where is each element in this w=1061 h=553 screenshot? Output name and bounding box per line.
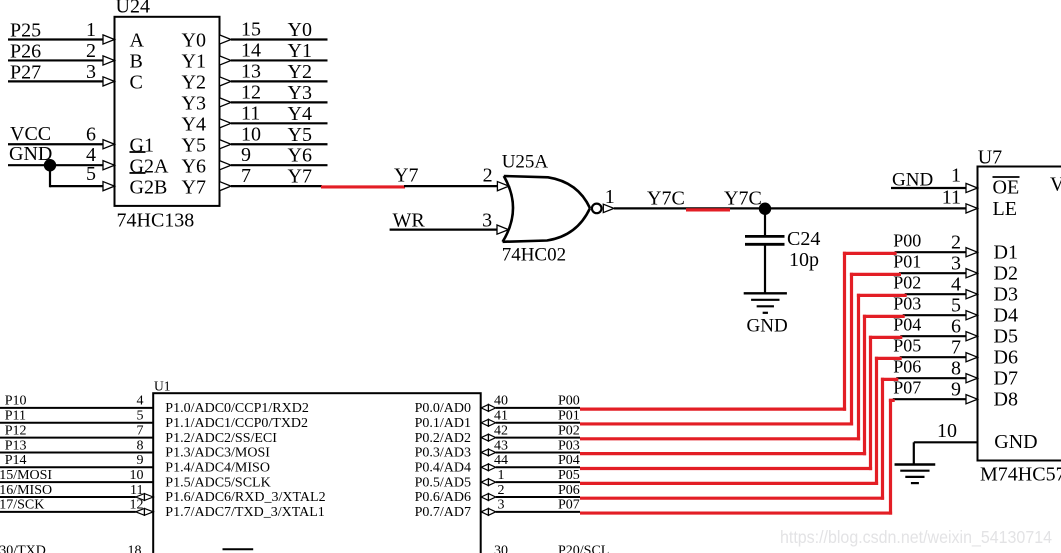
svg-text:Y5: Y5 bbox=[288, 124, 312, 146]
svg-text:G2B: G2B bbox=[130, 176, 168, 198]
svg-text:Y3: Y3 bbox=[288, 82, 312, 104]
svg-text:D1: D1 bbox=[994, 242, 1018, 264]
svg-text:U24: U24 bbox=[116, 0, 150, 18]
svg-text:P13: P13 bbox=[5, 438, 27, 453]
svg-text:74HC138: 74HC138 bbox=[117, 210, 195, 232]
svg-text:U25A: U25A bbox=[502, 151, 549, 172]
svg-text:P03: P03 bbox=[558, 438, 580, 453]
svg-text:P1.4/ADC4/MISO: P1.4/ADC4/MISO bbox=[165, 461, 270, 476]
svg-text:4: 4 bbox=[951, 273, 961, 295]
svg-text:42: 42 bbox=[494, 423, 508, 438]
svg-text:Y6: Y6 bbox=[182, 155, 206, 177]
svg-text:9: 9 bbox=[951, 378, 961, 400]
svg-text:GND: GND bbox=[892, 169, 933, 190]
svg-text:P05: P05 bbox=[558, 468, 580, 483]
svg-text:41: 41 bbox=[494, 409, 508, 424]
svg-text:P10: P10 bbox=[5, 394, 27, 409]
svg-text:11: 11 bbox=[241, 102, 260, 124]
svg-text:P06: P06 bbox=[558, 483, 580, 498]
svg-text:GND: GND bbox=[747, 315, 788, 336]
svg-text:12: 12 bbox=[241, 81, 261, 103]
svg-text:P0.1/AD1: P0.1/AD1 bbox=[415, 416, 471, 431]
svg-text:14: 14 bbox=[241, 39, 261, 61]
svg-text:3: 3 bbox=[482, 210, 492, 232]
svg-text:44: 44 bbox=[494, 453, 508, 468]
svg-text:D4: D4 bbox=[994, 305, 1018, 327]
svg-text:C24: C24 bbox=[787, 228, 820, 250]
svg-text:D5: D5 bbox=[994, 326, 1018, 348]
svg-text:P14: P14 bbox=[5, 453, 27, 468]
svg-text:2: 2 bbox=[86, 40, 96, 62]
svg-text:5: 5 bbox=[137, 409, 144, 424]
svg-text:D7: D7 bbox=[994, 368, 1018, 390]
svg-text:9: 9 bbox=[241, 144, 251, 166]
svg-text:P20/SCL: P20/SCL bbox=[558, 544, 609, 553]
svg-text:P00: P00 bbox=[558, 394, 580, 409]
svg-text:B: B bbox=[130, 51, 143, 73]
svg-text:VCC: VCC bbox=[10, 123, 51, 145]
svg-text:Y0: Y0 bbox=[288, 19, 312, 41]
svg-text:Y2: Y2 bbox=[182, 72, 206, 94]
svg-text:Y7C: Y7C bbox=[724, 187, 762, 209]
svg-text:WR: WR bbox=[393, 210, 426, 232]
svg-text:P0.7/AD7: P0.7/AD7 bbox=[415, 505, 471, 520]
svg-text:U7: U7 bbox=[978, 147, 1002, 169]
svg-text:6: 6 bbox=[951, 315, 961, 337]
svg-text:15: 15 bbox=[241, 19, 261, 41]
svg-text:30: 30 bbox=[494, 544, 508, 553]
svg-text:G1: G1 bbox=[130, 134, 154, 156]
svg-text:P15/MOSI: P15/MOSI bbox=[0, 468, 52, 483]
svg-text:Y6: Y6 bbox=[288, 145, 312, 167]
svg-text:Y7: Y7 bbox=[182, 176, 206, 198]
svg-text:3: 3 bbox=[498, 498, 505, 513]
svg-text:P25: P25 bbox=[10, 20, 41, 42]
svg-text:P00: P00 bbox=[893, 231, 921, 251]
svg-text:6: 6 bbox=[86, 123, 96, 145]
svg-text:8: 8 bbox=[951, 357, 961, 379]
svg-text:M74HC573: M74HC573 bbox=[980, 464, 1061, 486]
svg-text:9: 9 bbox=[137, 453, 144, 468]
svg-text:10: 10 bbox=[130, 468, 144, 483]
svg-text:43: 43 bbox=[494, 438, 508, 453]
svg-text:P1.1/ADC1/CCP0/TXD2: P1.1/ADC1/CCP0/TXD2 bbox=[165, 416, 308, 431]
svg-text:10p: 10p bbox=[789, 249, 819, 271]
svg-text:P1.7/ADC7/TXD_3/XTAL1: P1.7/ADC7/TXD_3/XTAL1 bbox=[165, 505, 324, 520]
svg-text:P1.0/ADC0/CCP1/RXD2: P1.0/ADC0/CCP1/RXD2 bbox=[165, 401, 309, 416]
svg-text:2: 2 bbox=[483, 165, 493, 187]
svg-text:C: C bbox=[130, 72, 143, 94]
svg-text:1: 1 bbox=[951, 165, 961, 187]
svg-text:D2: D2 bbox=[994, 263, 1018, 285]
svg-text:Y4: Y4 bbox=[182, 114, 206, 136]
svg-text:P01: P01 bbox=[893, 252, 921, 272]
svg-text:D3: D3 bbox=[994, 284, 1018, 306]
svg-text:Y1: Y1 bbox=[288, 40, 312, 62]
svg-text:P02: P02 bbox=[558, 423, 580, 438]
svg-text:Y2: Y2 bbox=[288, 61, 312, 83]
svg-text:P0.0/AD0: P0.0/AD0 bbox=[415, 401, 471, 416]
svg-text:3: 3 bbox=[86, 61, 96, 83]
svg-text:8: 8 bbox=[137, 438, 144, 453]
svg-text:11: 11 bbox=[130, 483, 143, 498]
svg-text:Y3: Y3 bbox=[182, 93, 206, 115]
svg-text:Y5: Y5 bbox=[182, 134, 206, 156]
svg-text:P0.4/AD4: P0.4/AD4 bbox=[415, 461, 471, 476]
svg-text:12: 12 bbox=[130, 498, 144, 513]
svg-text:1: 1 bbox=[605, 186, 615, 208]
svg-text:7: 7 bbox=[137, 423, 144, 438]
svg-text:A: A bbox=[130, 30, 145, 52]
svg-text:GND: GND bbox=[994, 431, 1037, 453]
svg-text:10: 10 bbox=[241, 123, 261, 145]
svg-text:P1.3/ADC3/MOSI: P1.3/ADC3/MOSI bbox=[165, 446, 270, 461]
svg-text:2: 2 bbox=[498, 483, 505, 498]
svg-text:18: 18 bbox=[128, 544, 142, 553]
svg-text:7: 7 bbox=[951, 336, 961, 358]
svg-text:G2A: G2A bbox=[130, 155, 169, 177]
svg-text:4: 4 bbox=[137, 394, 144, 409]
svg-text:OE: OE bbox=[993, 177, 1020, 199]
svg-text:74HC02: 74HC02 bbox=[502, 245, 566, 266]
svg-text:1: 1 bbox=[498, 468, 505, 483]
svg-text:P0.2/AD2: P0.2/AD2 bbox=[415, 431, 471, 446]
svg-text:10: 10 bbox=[937, 420, 957, 442]
svg-text:P17/SCK: P17/SCK bbox=[0, 498, 44, 513]
svg-text:Y7: Y7 bbox=[288, 166, 312, 188]
svg-text:D8: D8 bbox=[994, 389, 1018, 411]
svg-text:P1.6/ADC6/RXD_3/XTAL2: P1.6/ADC6/RXD_3/XTAL2 bbox=[165, 490, 325, 505]
svg-text:P1.5/ADC5/SCLK: P1.5/ADC5/SCLK bbox=[165, 475, 270, 490]
svg-text:Y7: Y7 bbox=[394, 165, 418, 187]
svg-text:VCC: VCC bbox=[1050, 174, 1061, 196]
svg-text:Y4: Y4 bbox=[288, 103, 312, 125]
svg-text:P04: P04 bbox=[558, 453, 580, 468]
svg-text:P26: P26 bbox=[10, 40, 41, 62]
svg-text:5: 5 bbox=[86, 163, 96, 185]
svg-text:1: 1 bbox=[86, 19, 96, 41]
svg-text:D6: D6 bbox=[994, 347, 1018, 369]
svg-text:https://blog.csdn.net/weixin_5: https://blog.csdn.net/weixin_54130714 bbox=[780, 527, 1052, 548]
svg-text:7: 7 bbox=[241, 165, 251, 187]
svg-text:11: 11 bbox=[942, 186, 961, 208]
svg-text:P1.2/ADC2/SS/ECI: P1.2/ADC2/SS/ECI bbox=[165, 431, 277, 446]
svg-text:Y0: Y0 bbox=[182, 30, 206, 52]
svg-text:P0.3/AD3: P0.3/AD3 bbox=[415, 446, 471, 461]
svg-text:LE: LE bbox=[993, 198, 1017, 220]
svg-text:P16/MISO: P16/MISO bbox=[0, 483, 52, 498]
svg-text:Y1: Y1 bbox=[182, 51, 206, 73]
svg-text:3: 3 bbox=[951, 252, 961, 274]
svg-text:2: 2 bbox=[951, 231, 961, 253]
svg-text:P27: P27 bbox=[10, 61, 41, 83]
svg-text:P11: P11 bbox=[5, 409, 26, 424]
svg-text:P07: P07 bbox=[558, 498, 580, 513]
svg-text:13: 13 bbox=[241, 60, 261, 82]
svg-text:P0.6/AD6: P0.6/AD6 bbox=[415, 490, 471, 505]
svg-text:P0.5/AD5: P0.5/AD5 bbox=[415, 475, 471, 490]
svg-text:P30/TXD: P30/TXD bbox=[0, 544, 46, 553]
svg-text:5: 5 bbox=[951, 294, 961, 316]
svg-text:P01: P01 bbox=[558, 409, 580, 424]
svg-text:P12: P12 bbox=[5, 423, 27, 438]
svg-text:40: 40 bbox=[494, 394, 508, 409]
svg-text:U1: U1 bbox=[154, 378, 171, 393]
svg-text:Y7C: Y7C bbox=[647, 187, 685, 209]
